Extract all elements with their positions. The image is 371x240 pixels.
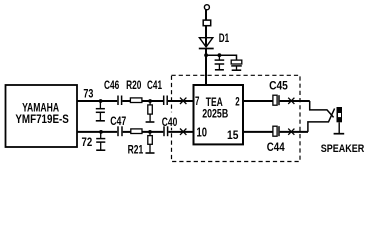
svg-text:2025B: 2025B bbox=[202, 107, 228, 121]
capacitor C41 bbox=[164, 96, 168, 106]
wire R21 to C40 bbox=[142, 131, 163, 133]
connector X mark after C45 bbox=[288, 98, 294, 104]
svg-text:C41: C41 bbox=[147, 80, 162, 92]
svg-text:R21: R21 bbox=[128, 144, 144, 156]
diode D1 bbox=[199, 38, 214, 49]
svg-text:SPEAKER: SPEAKER bbox=[321, 143, 365, 155]
wire TEA pin15 to C44 bbox=[244, 131, 274, 133]
wire pin72 to C47 bbox=[77, 131, 117, 133]
connector X mark at pin10 bbox=[180, 129, 186, 135]
node junction dot at first filter cap bbox=[218, 53, 222, 57]
svg-text:73: 73 bbox=[83, 87, 93, 101]
wire bottom channel step up to jack bbox=[308, 109, 335, 132]
speaker jack plug bbox=[334, 107, 345, 134]
svg-text:10: 10 bbox=[197, 125, 208, 140]
node junction dot on supply wire bbox=[204, 53, 208, 57]
ground bar under bottom shunt resistor bbox=[146, 152, 155, 154]
capacitor C44 (electrolytic) bbox=[273, 126, 279, 136]
svg-text:YMF719E-S: YMF719E-S bbox=[15, 112, 69, 126]
fuse box on supply wire bbox=[203, 20, 211, 26]
svg-text:7: 7 bbox=[195, 94, 200, 108]
dashed enclosure box around TEA2025B bbox=[172, 75, 301, 161]
IC U2 name label TEA 2025B bbox=[202, 97, 228, 121]
node junction dot on pin73 wire bbox=[99, 99, 103, 103]
svg-text:2: 2 bbox=[235, 94, 240, 108]
wire terminal to fuse bbox=[205, 10, 207, 21]
ground bar under ceramic filter cap bbox=[215, 69, 224, 71]
capacitor C40 label bbox=[161, 112, 180, 127]
capacitor C45 (electrolytic) bbox=[273, 95, 279, 105]
capacitor filter (electrolytic) on supply bbox=[231, 60, 242, 70]
wire top channel step down to jack bbox=[310, 101, 334, 117]
ground bar under shunt cap (pin72) bbox=[96, 149, 105, 151]
supply terminal circle bbox=[204, 5, 209, 10]
node junction dot after R20 bbox=[148, 99, 152, 103]
wire TEA pin2 to C45 bbox=[244, 100, 274, 102]
capacitor C46 bbox=[118, 96, 122, 106]
resistor shunt to ground (bottom row) bbox=[148, 132, 153, 153]
wire C46 to R20 bbox=[122, 100, 130, 102]
wire R20 to C41 bbox=[142, 100, 163, 102]
connector X mark after C44 bbox=[288, 129, 294, 135]
svg-text:R20: R20 bbox=[126, 80, 141, 92]
svg-text:D1: D1 bbox=[219, 31, 230, 45]
node junction dot after R21 bbox=[148, 130, 152, 134]
svg-text:C44: C44 bbox=[267, 142, 285, 154]
wire diode to TEA top bbox=[205, 49, 207, 85]
capacitor C40 bbox=[164, 126, 168, 136]
ground bar under electrolytic filter cap bbox=[232, 69, 242, 71]
capacitor shunt on pin72 node (to ground) bbox=[96, 132, 105, 150]
wire C40 to TEA pin10 bbox=[168, 131, 193, 133]
capacitor C47 bbox=[118, 126, 122, 136]
resistor R20 bbox=[130, 98, 142, 103]
svg-text:C45: C45 bbox=[269, 81, 288, 93]
connector X mark at pin7 bbox=[180, 98, 186, 104]
wire C45 to X mark bbox=[280, 100, 310, 102]
ground bar under top shunt resistor bbox=[146, 121, 155, 123]
capacitor filter (ceramic) on supply bbox=[215, 55, 225, 69]
resistor R21 bbox=[131, 129, 142, 134]
capacitor shunt on pin73 node (to ground) bbox=[96, 101, 105, 120]
IC U1 YAMAHA YMF719E-S bbox=[6, 85, 78, 147]
amplifier IC U2 TEA2025B body bbox=[194, 85, 244, 144]
resistor shunt to ground (top row) bbox=[148, 101, 153, 121]
wire supply branch to filter caps bbox=[206, 55, 236, 60]
wire fuse to diode D1 bbox=[205, 26, 207, 47]
node junction dot on pin72 wire bbox=[99, 130, 103, 134]
wire C44 to X mark bbox=[280, 131, 308, 133]
ground bar under shunt cap (pin73) bbox=[96, 120, 105, 122]
svg-text:72: 72 bbox=[82, 135, 93, 149]
svg-text:C46: C46 bbox=[104, 80, 119, 92]
wire C41 to TEA pin7 bbox=[168, 100, 193, 102]
svg-text:15: 15 bbox=[227, 128, 238, 142]
wire C47 to R21 bbox=[123, 131, 131, 133]
wire pin73 to C46 bbox=[77, 100, 117, 102]
